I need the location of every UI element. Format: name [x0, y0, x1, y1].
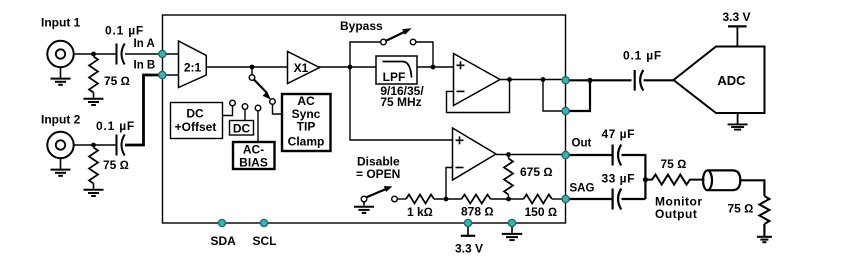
wire (R5 to SAG pin) [552, 198, 566, 200]
wire (bypass right branch) [416, 42, 433, 67]
switch SW1 lever arrow [254, 79, 267, 92]
ground (bottom pin) [502, 223, 522, 240]
ground (under R8) [757, 224, 772, 242]
wire (coax to R8, bold) [740, 180, 764, 196]
svg-text:AC: AC [297, 94, 315, 108]
wire (op-amp U3 output to ADC pin) [500, 79, 566, 81]
pin amp output (to ADC) [562, 77, 569, 84]
switch SW3 disable pivot [361, 196, 367, 202]
svg-text:ADC: ADC [717, 73, 746, 88]
wire (SAG pin to cap C5, bold) [566, 198, 613, 200]
svg-text:Output: Output [655, 207, 697, 221]
block DC +Offset [171, 103, 223, 139]
svg-text:75 Ω: 75 Ω [104, 74, 130, 88]
svg-text:75 MHz: 75 MHz [380, 95, 421, 109]
switch SW2 bypass contact right [410, 39, 416, 45]
ground (under R2) [84, 184, 104, 197]
wire (bypass left branch) [350, 42, 381, 67]
switch SW3 lever arrow [366, 189, 385, 197]
svg-text:150 Ω: 150 Ω [525, 205, 558, 219]
resistor R7 75ohm (monitor series) [645, 175, 704, 185]
amplifier X1 [288, 52, 320, 84]
op-amp U4 minus input marker [456, 167, 464, 169]
ground (under BNC J2) [51, 158, 71, 176]
wire (internal loop to second pin) [543, 80, 566, 112]
svg-text:DC: DC [233, 122, 251, 136]
resistor R1 75ohm [89, 57, 98, 93]
ground (under BNC J1) [51, 67, 71, 85]
ground (under SW3 pivot) [354, 202, 374, 213]
pin GND [508, 219, 515, 226]
wire (BNC J1 to cap C1) [74, 53, 116, 55]
svg-text:Clamp: Clamp [288, 135, 325, 149]
wire (contact d to AC Sync TIP Clamp box) [273, 104, 283, 114]
pin Out [562, 151, 569, 158]
BNC connector J1 (Input 1) [47, 41, 73, 67]
node (mux output junction) [250, 65, 255, 70]
svg-text:SCL: SCL [253, 234, 277, 248]
node (pin loop tap) [541, 77, 546, 82]
svg-text:Out: Out [572, 138, 592, 150]
svg-text:+Offset: +Offset [175, 120, 217, 134]
pin SAG [562, 195, 569, 202]
wire (cap C2 up to In B pin, bold) [125, 75, 159, 145]
block AC-BIAS [233, 142, 275, 169]
resistor R8 75ohm (termination) [759, 196, 769, 224]
pin loop return [562, 107, 569, 114]
svg-text:SAG: SAG [570, 183, 595, 195]
svg-text:In A: In A [134, 38, 155, 50]
svg-text:Input 2: Input 2 [41, 113, 81, 127]
wire (contact a to DC+Offset box) [223, 106, 233, 116]
switch SW1 contact c [255, 105, 261, 111]
svg-text:SDA: SDA [211, 234, 237, 248]
svg-text:TIP: TIP [297, 120, 316, 134]
op-amp U3 minus input marker [457, 90, 465, 92]
svg-text:0.1 µF: 0.1 µF [623, 49, 662, 63]
op-amp U3 [454, 54, 501, 106]
wire (op-amp U4 output to Out pin) [496, 154, 566, 156]
wire (cap C3 to ADC) [644, 79, 674, 81]
supply 3.3V bottom pin [461, 223, 475, 236]
wire (junction to clamp switch pivot) [251, 67, 253, 75]
wire (U4 minus feedback to divider) [446, 168, 453, 200]
pin SDA [218, 219, 225, 226]
op-amp U4 [453, 128, 497, 180]
svg-text:0.1 µF: 0.1 µF [105, 24, 144, 38]
svg-text:LPF: LPF [383, 70, 406, 84]
capacitor C2 0.1uF [117, 135, 125, 156]
node (Input 1 junction) [91, 52, 96, 57]
node (monitor junction) [643, 177, 648, 182]
svg-text:BIAS: BIAS [239, 156, 268, 170]
BNC connector J2 (Input 2) [47, 132, 73, 158]
filter LPF box [376, 56, 417, 84]
svg-text:X1: X1 [294, 61, 309, 75]
pin 3.3V [464, 219, 471, 226]
capacitor C1 0.1uF [117, 44, 125, 65]
resistor R6 675ohm [508, 155, 510, 159]
resistor R5 150ohm [524, 195, 552, 204]
switch SW2 lever arrow [386, 32, 405, 41]
svg-text:33 µF: 33 µF [602, 172, 635, 186]
pin SCL [260, 219, 267, 226]
svg-text:In B: In B [134, 60, 156, 72]
wire (contact c to AC-BIAS box) [257, 111, 259, 142]
node (feedback tap) [507, 77, 512, 82]
node (Input 2 junction) [91, 143, 96, 148]
node (feedback divider tap) [444, 197, 449, 202]
op-amp U4 plus input marker [456, 136, 464, 144]
wire (BNC J2 to cap C2) [74, 144, 116, 146]
switch SW1 contact a [230, 100, 236, 106]
block DC [230, 121, 254, 136]
wire (In A pin to mux) [162, 53, 178, 55]
block AC Sync TIP Clamp [282, 94, 331, 151]
svg-text:878 Ω: 878 Ω [461, 205, 494, 219]
svg-text:3.3 V: 3.3 V [455, 242, 483, 256]
svg-text:675 Ω: 675 Ω [520, 165, 553, 179]
svg-text:AC-: AC- [243, 143, 264, 157]
wire (cap C4 to monitor node, bold) [622, 155, 646, 199]
wire (R4 to R5) [491, 198, 524, 200]
wire (main tap down to op-amp U4) [350, 67, 453, 140]
pin In B [159, 71, 166, 78]
wire (op-amp U3 unity feedback) [447, 80, 510, 113]
coax plug (monitor output) [703, 170, 740, 190]
svg-text:0.1 µF: 0.1 µF [96, 119, 135, 133]
svg-text:Input 1: Input 1 [41, 16, 81, 30]
resistor R4 878ohm [462, 195, 491, 204]
node (U4 output junction) [506, 152, 511, 157]
switch SW1 contact b [242, 104, 248, 110]
node (LPF input junction) [348, 65, 353, 70]
svg-text:1 kΩ: 1 kΩ [407, 205, 433, 219]
wire (Out pin to cap C4, bold) [566, 154, 613, 156]
wire (cap C5 to monitor node, bold) [622, 198, 646, 200]
pin In A [159, 50, 166, 57]
resistor R2 75ohm [89, 148, 98, 184]
svg-text:2:1: 2:1 [184, 61, 202, 75]
op-amp U3 plus input marker [457, 61, 465, 69]
node (external ADC junction) [587, 78, 592, 83]
capacitor C3 0.1uF [635, 70, 644, 91]
IC boundary box [163, 15, 566, 223]
resistor R3 1kohm [406, 195, 434, 204]
svg-text:75 Ω: 75 Ω [103, 158, 129, 172]
filter LPF response curve [383, 62, 412, 78]
switch SW2 bypass contact left [381, 39, 387, 45]
svg-text:Bypass: Bypass [340, 19, 383, 33]
node (675 bottom junction) [506, 197, 511, 202]
wire (ADC net, bold) [566, 79, 632, 81]
svg-text:75 Ω: 75 Ω [661, 157, 687, 171]
switch SW1 contact d [270, 99, 276, 105]
ground (under R1) [84, 93, 104, 106]
switch SW3 contact [392, 196, 398, 202]
svg-text:75 Ω: 75 Ω [728, 202, 754, 216]
wire (R3 to R4) [434, 198, 462, 200]
capacitor C5 33uF [613, 189, 622, 210]
capacitor C4 47uF [613, 145, 622, 166]
wire (cap C1 to In A pin) [125, 53, 159, 55]
svg-text:47 µF: 47 µF [602, 127, 635, 141]
wire (In B pin to mux) [162, 74, 178, 76]
node (LPF output junction) [431, 65, 436, 70]
svg-text:= OPEN: = OPEN [356, 167, 400, 181]
switch SW1 pivot (input coupling selector) [249, 75, 255, 81]
svg-text:DC: DC [186, 107, 204, 121]
ground (under ADC) [728, 113, 748, 130]
wire (external loop to second pin, bold) [566, 80, 590, 111]
svg-text:3.3 V: 3.3 V [723, 10, 751, 24]
mux U1 2:1 [179, 41, 207, 88]
wire (contact b to DC box) [244, 109, 246, 120]
wire (main signal mux to op-amp U3) [206, 66, 453, 68]
ADC block [674, 47, 765, 114]
wire (SW3 contact to R3) [397, 198, 406, 200]
